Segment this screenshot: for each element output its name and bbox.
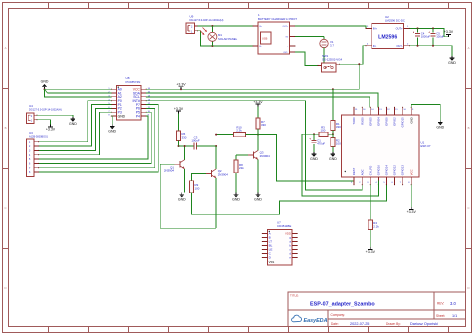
wire U4 pin1 to +3.3V [37, 120, 51, 125]
ground (U8 GND pin) [108, 116, 116, 133]
power flag +3.3V (R4/CH_PD) [366, 247, 376, 254]
capacitor C1 [309, 133, 325, 152]
ground (ESP GND pin) [436, 121, 444, 130]
svg-text:U3: U3 [29, 131, 33, 135]
module U1 ESP-07 [342, 107, 431, 186]
wire Q3 node to ESP REST [258, 135, 354, 181]
ground (Q3) [254, 193, 262, 202]
svg-text:VCC: VCC [409, 169, 413, 175]
wire U8 P5 to U3 pin 6 [39, 112, 152, 163]
transistor Q2 [206, 146, 228, 178]
svg-text:EasyEDA: EasyEDA [304, 318, 328, 324]
svg-text:U4: U4 [29, 104, 33, 108]
IC U7 CD4511BE [262, 220, 298, 265]
svg-text:1/1: 1/1 [452, 314, 457, 318]
connector U4 [27, 104, 62, 124]
svg-text:U9: U9 [190, 15, 194, 19]
resistor R1 [331, 121, 341, 136]
power flag +3.3V (R6) [174, 107, 184, 131]
ground (U8 address pins) [41, 79, 49, 90]
svg-text:Date:: Date: [331, 322, 339, 326]
svg-text:GND: GND [448, 61, 456, 65]
wire ESP VCC to +3.3V [410, 185, 412, 207]
svg-text:GND: GND [118, 114, 126, 118]
wire GND to U8 A2 [45, 89, 112, 97]
svg-text:+3.3V: +3.3V [174, 107, 184, 111]
transistor Q1 [160, 145, 185, 193]
svg-text:B: B [5, 126, 7, 130]
svg-text:GPIO16: GPIO16 [377, 165, 381, 176]
svg-text:470uF: 470uF [317, 141, 325, 145]
wire U4 pin2 to GND [37, 114, 73, 116]
power flag +3.3V (R7) [253, 100, 263, 118]
power flag +3.3V (U8 VCC) [176, 83, 186, 90]
svg-text:REST: REST [352, 167, 356, 175]
svg-text:PCF8574N: PCF8574N [126, 80, 141, 84]
svg-text:D: D [467, 286, 469, 290]
svg-text:330: 330 [336, 125, 341, 129]
battery charger module [252, 13, 297, 54]
wire U8 SCL to ESP GPIO5 [146, 97, 370, 107]
svg-text:100uF: 100uF [191, 138, 199, 142]
capacitor C4 [413, 28, 431, 45]
svg-text:+3.3V: +3.3V [46, 127, 56, 131]
capacitor C5 [428, 28, 444, 45]
wire U8 VCC battery rail [146, 88, 359, 90]
resistor R4 [368, 185, 379, 247]
wire U8 INT# to ESP ADC [146, 101, 362, 190]
svg-text:+3.3V: +3.3V [176, 83, 186, 87]
svg-text:22k: 22k [239, 166, 244, 170]
ground (Q1) [178, 193, 186, 202]
svg-text:+3.3V: +3.3V [253, 100, 263, 104]
wire GND to U8 A0 [45, 88, 112, 90]
svg-text:ESP-07_adapter_Szambo: ESP-07_adapter_Szambo [310, 302, 375, 308]
ground (R8) [232, 193, 240, 202]
svg-text:Company:: Company: [331, 313, 346, 317]
resistor R8 [234, 155, 248, 193]
svg-text:B: B [468, 126, 470, 130]
ground (U4) [69, 115, 77, 126]
svg-text:100: 100 [336, 142, 341, 146]
svg-text:3.7: 3.7 [330, 44, 334, 48]
svg-text:CH_PD: CH_PD [368, 166, 372, 175]
svg-text:GPIO4: GPIO4 [377, 117, 381, 126]
wire U3 pin 2 to U8 P1 [39, 105, 112, 146]
svg-text:1000uF: 1000uF [421, 35, 431, 39]
svg-text:GND: GND [41, 79, 49, 83]
wire Q2 emitter to feedback loop [215, 178, 217, 228]
wire U8 SDA to ESP GPIO4 [146, 93, 378, 107]
wire U8 P6 to U3 pin 7 [39, 108, 155, 167]
svg-text:DG127-5.0-02P-14-1002A(H): DG127-5.0-02P-14-1002A(H) [190, 18, 224, 22]
svg-text:A: A [5, 46, 7, 50]
svg-text:2N3904: 2N3904 [164, 169, 175, 173]
ground (R2) [329, 152, 337, 161]
power flag +3.3V (ESP VCC) [407, 207, 417, 214]
svg-text:GPIO0: GPIO0 [385, 117, 389, 126]
wire GND to U8 A1 [45, 89, 48, 93]
svg-text:TITLE:: TITLE: [290, 294, 299, 298]
svg-text:LM2596 DC-DC: LM2596 DC-DC [385, 18, 405, 22]
svg-text:OUT+: OUT+ [283, 26, 289, 28]
power flag +3.3V (regulator output) [444, 30, 454, 37]
power flag +3.3V (U4) [46, 125, 56, 132]
svg-text:+3.3V: +3.3V [444, 30, 454, 34]
svg-text:Sheet:: Sheet: [436, 314, 445, 318]
svg-text:Drawn By:: Drawn By: [386, 322, 401, 326]
wire U9 pin1 to charger B- [198, 31, 254, 47]
wire LM2596 OUT+ rail [410, 27, 449, 36]
wire battery rail to R1 [332, 89, 334, 120]
svg-text:GND: GND [232, 197, 240, 201]
svg-text:IN+: IN+ [373, 27, 378, 31]
svg-text:OUT-: OUT- [396, 44, 402, 48]
svg-text:VSS: VSS [269, 260, 275, 264]
battery V1 [295, 37, 334, 64]
svg-text:2N3904: 2N3904 [218, 172, 229, 176]
svg-text:GPIO15: GPIO15 [401, 117, 405, 128]
svg-text:GND: GND [409, 117, 413, 123]
wire R3 node to ESP GPIO16 [302, 134, 378, 196]
svg-text:+3.3V: +3.3V [407, 210, 417, 214]
IC U8 PCF8574N [108, 76, 150, 120]
svg-text:100: 100 [195, 186, 200, 190]
svg-text:USB: USB [262, 36, 268, 40]
wire U3 pin 1 to U8 P0 [39, 101, 112, 142]
regulator U2 LM2596 [365, 15, 410, 49]
svg-text:C: C [467, 206, 469, 210]
svg-text:GND: GND [310, 157, 318, 161]
svg-text:P4: P4 [136, 114, 140, 118]
svg-text:2022-07-25: 2022-07-25 [350, 322, 369, 326]
svg-text:ADC: ADC [360, 169, 364, 175]
svg-text:DG127-5.0-02P-14-1002A(H): DG127-5.0-02P-14-1002A(H) [29, 108, 62, 111]
svg-text:BATTERY CHARGER LI PROT: BATTERY CHARGER LI PROT [258, 17, 297, 21]
svg-text:SS-12D02-VG4: SS-12D02-VG4 [322, 58, 342, 62]
resistor R7 [256, 118, 266, 135]
svg-text:100: 100 [321, 128, 326, 132]
svg-text:RXD0: RXD0 [360, 117, 364, 125]
wire charger OUT- to SW1 [295, 52, 318, 65]
wire charger OUT+ to LM2596 IN+ [295, 26, 371, 28]
svg-text:100uF: 100uF [436, 35, 444, 39]
svg-text:2.2k: 2.2k [236, 129, 242, 133]
svg-text:GPIO13: GPIO13 [401, 165, 405, 176]
wire U8 P7 to U3 pin 8 [39, 105, 159, 172]
svg-text:GND: GND [254, 197, 262, 201]
svg-text:IN-: IN- [373, 44, 377, 48]
svg-text:TXD0: TXD0 [352, 117, 356, 125]
svg-text:ESP-07: ESP-07 [421, 144, 431, 148]
wire U3 pin 4 to U8 P3 [39, 112, 112, 155]
svg-text:Dariusz Opoński: Dariusz Opoński [410, 322, 438, 326]
svg-text:LM2596: LM2596 [378, 35, 397, 41]
wire LM2596 OUT- to GND [410, 45, 453, 56]
wire ESP GND to ground [411, 105, 440, 121]
svg-text:GND: GND [108, 129, 116, 133]
svg-text:B-: B- [260, 46, 262, 48]
svg-text:GND: GND [329, 157, 337, 161]
svg-text:D: D [4, 286, 6, 290]
svg-text:REV:: REV: [437, 302, 444, 306]
resistor R2 [328, 134, 341, 152]
connector U9 [186, 15, 224, 34]
switch SW1 [317, 54, 342, 72]
svg-text:A12B-5000BG01: A12B-5000BG01 [29, 135, 49, 138]
svg-text:GND: GND [436, 125, 444, 129]
svg-text:C: C [4, 206, 6, 210]
svg-text:GPIO5: GPIO5 [368, 117, 372, 126]
capacitor C3 [179, 135, 218, 149]
connector U3 [27, 131, 49, 176]
svg-text:A: A [468, 46, 470, 50]
wire feedback loop to Q1 base [160, 164, 216, 228]
svg-text:330: 330 [261, 123, 266, 127]
solar panel M1 [200, 26, 238, 46]
svg-text:GND: GND [178, 197, 186, 201]
svg-text:2N3904: 2N3904 [260, 154, 271, 158]
ground (C1) [310, 152, 318, 161]
svg-text:GND: GND [69, 122, 77, 126]
resistor R6 [176, 131, 186, 147]
svg-text:GPIO14: GPIO14 [385, 165, 389, 176]
svg-text:330: 330 [182, 135, 187, 139]
wire SW1 to LM2596 IN- and battery rail [340, 46, 371, 89]
svg-text:2.2k: 2.2k [373, 224, 379, 228]
svg-text:OUT-: OUT- [283, 52, 288, 54]
transistor Q3 [248, 135, 270, 193]
svg-text:GPIO2: GPIO2 [393, 117, 397, 126]
resistor R10 [215, 126, 259, 137]
wire U8 P4 to U3 pin 5 [39, 116, 148, 159]
svg-text:CD4511BE: CD4511BE [277, 224, 291, 228]
svg-text:SOLAR PANEL: SOLAR PANEL [218, 37, 238, 41]
resistor R9 [189, 174, 386, 215]
svg-text:+3.3V: +3.3V [366, 250, 376, 254]
wire U9 pin2 to charger B+ [198, 25, 254, 27]
wire U3 pin 3 to U8 P2 [39, 108, 112, 150]
ground (regulator output) [448, 56, 456, 65]
svg-text:GPIO12: GPIO12 [393, 165, 397, 176]
resistor R3 [314, 125, 328, 136]
svg-text:OUT+: OUT+ [396, 27, 403, 31]
svg-text:3.0: 3.0 [450, 301, 456, 306]
